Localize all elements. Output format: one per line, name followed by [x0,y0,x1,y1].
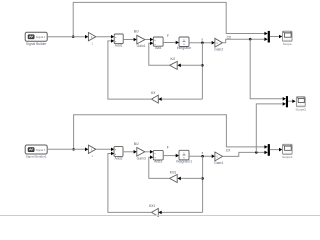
svg-text:Add2: Add2 [115,156,123,160]
sum block Add1 [114,34,123,48]
svg-text:Add3: Add3 [154,160,162,164]
arrowhead into K/J1 gain (pointing left) [177,177,180,181]
gain B/J (Gain1) [134,30,146,48]
gain CX (Gain2) [214,38,223,51]
wire: Mux to Scope [270,36,280,38]
wire: feedback vertical from node x [201,43,203,99]
svg-text:Signal Builder1: Signal Builder1 [26,155,47,159]
wire: loop1 branch to K/J gain [181,64,203,66]
svg-text:KX1: KX1 [149,204,155,208]
sum block Add [153,37,163,50]
wire: loop2 bottom run to KX gain [162,98,203,100]
gain triangle "1" [88,33,96,46]
arrowhead into Add1 input 2 [111,39,114,43]
gain K/J (feedback, points left) [170,57,178,69]
gain triangle "1" (bottom) [88,145,96,158]
wire: Add1 to Gain1 [123,39,134,41]
wire: middle Mux to Scope2 [288,100,293,102]
wire: Add2 to Gain3 [123,151,134,153]
junction dot on bottom feedback vertical (loop1 branch) [201,177,204,180]
arrowhead into Gain4 [212,154,215,158]
svg-text:Scope2: Scope2 [296,107,307,111]
wire: KX output left and up into Add1 input 2 [108,41,152,99]
junction dot on CX line [249,38,252,41]
block: Integrator1 1/s [176,150,193,163]
arrowhead into Add input 2 [150,41,153,45]
block: Scope [282,31,292,46]
arrowhead into Mux input 2 [264,37,267,41]
wire: Signal Builder to Gain [47,36,86,38]
svg-text:F: F [167,34,169,38]
svg-text:Signal 1: Signal 1 [36,148,46,152]
mux (middle) [286,96,288,107]
arrowhead into K/J gain (pointing left) [177,64,180,68]
wire: K/J output left and up into Add input 2 [149,43,170,65]
wire: bottom loop2 run to KX1 gain [162,211,203,213]
block: Scope1 [282,144,293,159]
node x junction dot [201,41,204,44]
arrowhead into middle Mux input 1 [283,97,286,101]
gain K/J1 (feedback, points left) [170,170,178,182]
arrowhead into Add2 input 2 [111,152,114,156]
block: Integrator 1/s [177,37,192,50]
svg-text:Gain3: Gain3 [137,156,146,160]
arrowhead into bottom Mux input 1 [264,145,267,149]
arrowhead into Integrator1 [176,154,179,158]
wire: top feed line from Signal Builder junction to Mux input 1 [73,2,265,36]
arrowhead into Scope1 [279,148,282,152]
gain KX1 (feedback, points left) [149,204,158,216]
svg-text:B/J: B/J [134,142,139,146]
wire: Gain to Add2 input 1 [96,148,112,150]
mux (bottom) [268,144,270,156]
block: Scope2 [296,97,307,112]
wire: Gain3 to Add3 input 1 [145,151,151,153]
arrowhead into Add3 input 1 [150,150,153,154]
svg-text:Gain1: Gain1 [137,44,146,48]
wire: Gain to Add1 input 1 [96,36,112,38]
svg-text:Integrator1: Integrator1 [176,160,193,164]
wire: Signal Builder1 to Gain [47,148,86,150]
junction dot at Signal Builder output [72,35,75,38]
arrowhead into Add input 1 [150,38,153,42]
junction dot on CX1 line [255,151,258,154]
svg-text:Signal 1: Signal 1 [36,35,46,39]
svg-text:Signal Builder: Signal Builder [26,42,47,46]
node x junction dot (bottom) [201,155,204,158]
block: Signal Builder1 [25,145,47,159]
svg-text:Add: Add [155,46,161,50]
wire: bottom loop1 branch to K/J1 gain [181,177,203,179]
wire: Integrator1 to Gain4, node x [189,155,212,157]
svg-text:C: C [216,155,218,159]
wire: K/J1 output left and up into Add3 input 2 [149,157,170,178]
arrowhead into bottom Mux input 2 [264,151,267,155]
arrowhead into Gain1 [134,38,137,42]
wire: Gain1 to Add input 1 [145,39,151,41]
wire: feedback vertical from bottom node x [202,156,204,212]
gain B/J (Gain3) [134,142,146,160]
sum block Add2 [114,147,123,161]
wire: Add3 to Integrator1 [163,155,176,157]
arrowhead into Scope2 [292,99,295,103]
mux (top) [268,31,270,43]
svg-text:B/J: B/J [134,30,139,34]
arrowhead into Gain2 [212,41,215,45]
wire: top feed line from Signal Builder1 junction to Mux input 1 (bottom) [74,115,265,150]
svg-text:Integrator: Integrator [177,46,192,50]
wire: bottom Mux to Scope1 [270,149,280,151]
arrowhead into Scope [279,35,282,39]
gain KX (feedback, points left) [151,91,158,103]
wire: Gain4 output to bottom Mux input 2 (jog up at 238.8) [223,152,265,156]
svg-text:Gain4: Gain4 [214,161,223,165]
svg-text:K/J: K/J [170,57,175,61]
junction dot at Signal Builder1 output [72,148,75,151]
arrowhead into Add3 input 2 [150,155,153,159]
arrowhead into KX1 gain (pointing left) [158,211,161,215]
svg-text:Scope1: Scope1 [282,155,293,159]
arrowhead into Add1 input 1 [111,35,114,39]
arrowhead into Gain [85,35,88,39]
arrowhead into Integrator [176,41,179,45]
arrowhead into bottom Gain [85,148,88,152]
arrowhead into Gain3 [134,150,137,154]
svg-text:F: F [167,145,169,149]
wire: Integrator to Gain2, node x [189,42,212,44]
arrowhead into middle Mux input 2 [283,102,286,106]
junction dot on feedback vertical (loop1 branch) [201,64,204,67]
svg-text:Scope: Scope [283,42,292,46]
arrowhead into Add2 input 1 [111,148,114,152]
gain CX (Gain4) [214,152,223,165]
svg-text:Gain2: Gain2 [214,48,223,52]
svg-text:K/J1: K/J1 [170,170,177,174]
wire: CX1 junction up to middle Mux input 2 [256,104,283,152]
wire: Gain2 output to Mux input 2 (with jog up) [222,39,264,43]
arrowhead into Mux input 1 [264,32,267,36]
svg-text:Add1: Add1 [115,44,123,48]
arrowhead into KX gain (pointing left) [158,97,161,101]
canvas bottom boundary line [0,215,320,217]
sum block Add3 [153,150,163,163]
svg-text:C: C [216,41,218,45]
block: Signal Builder [25,32,47,46]
wire: KX1 output left and up into Add2 input 2 [108,154,152,213]
wire: CX junction down to middle Mux input 1 [250,39,283,99]
wire: Add to Integrator [163,42,176,44]
